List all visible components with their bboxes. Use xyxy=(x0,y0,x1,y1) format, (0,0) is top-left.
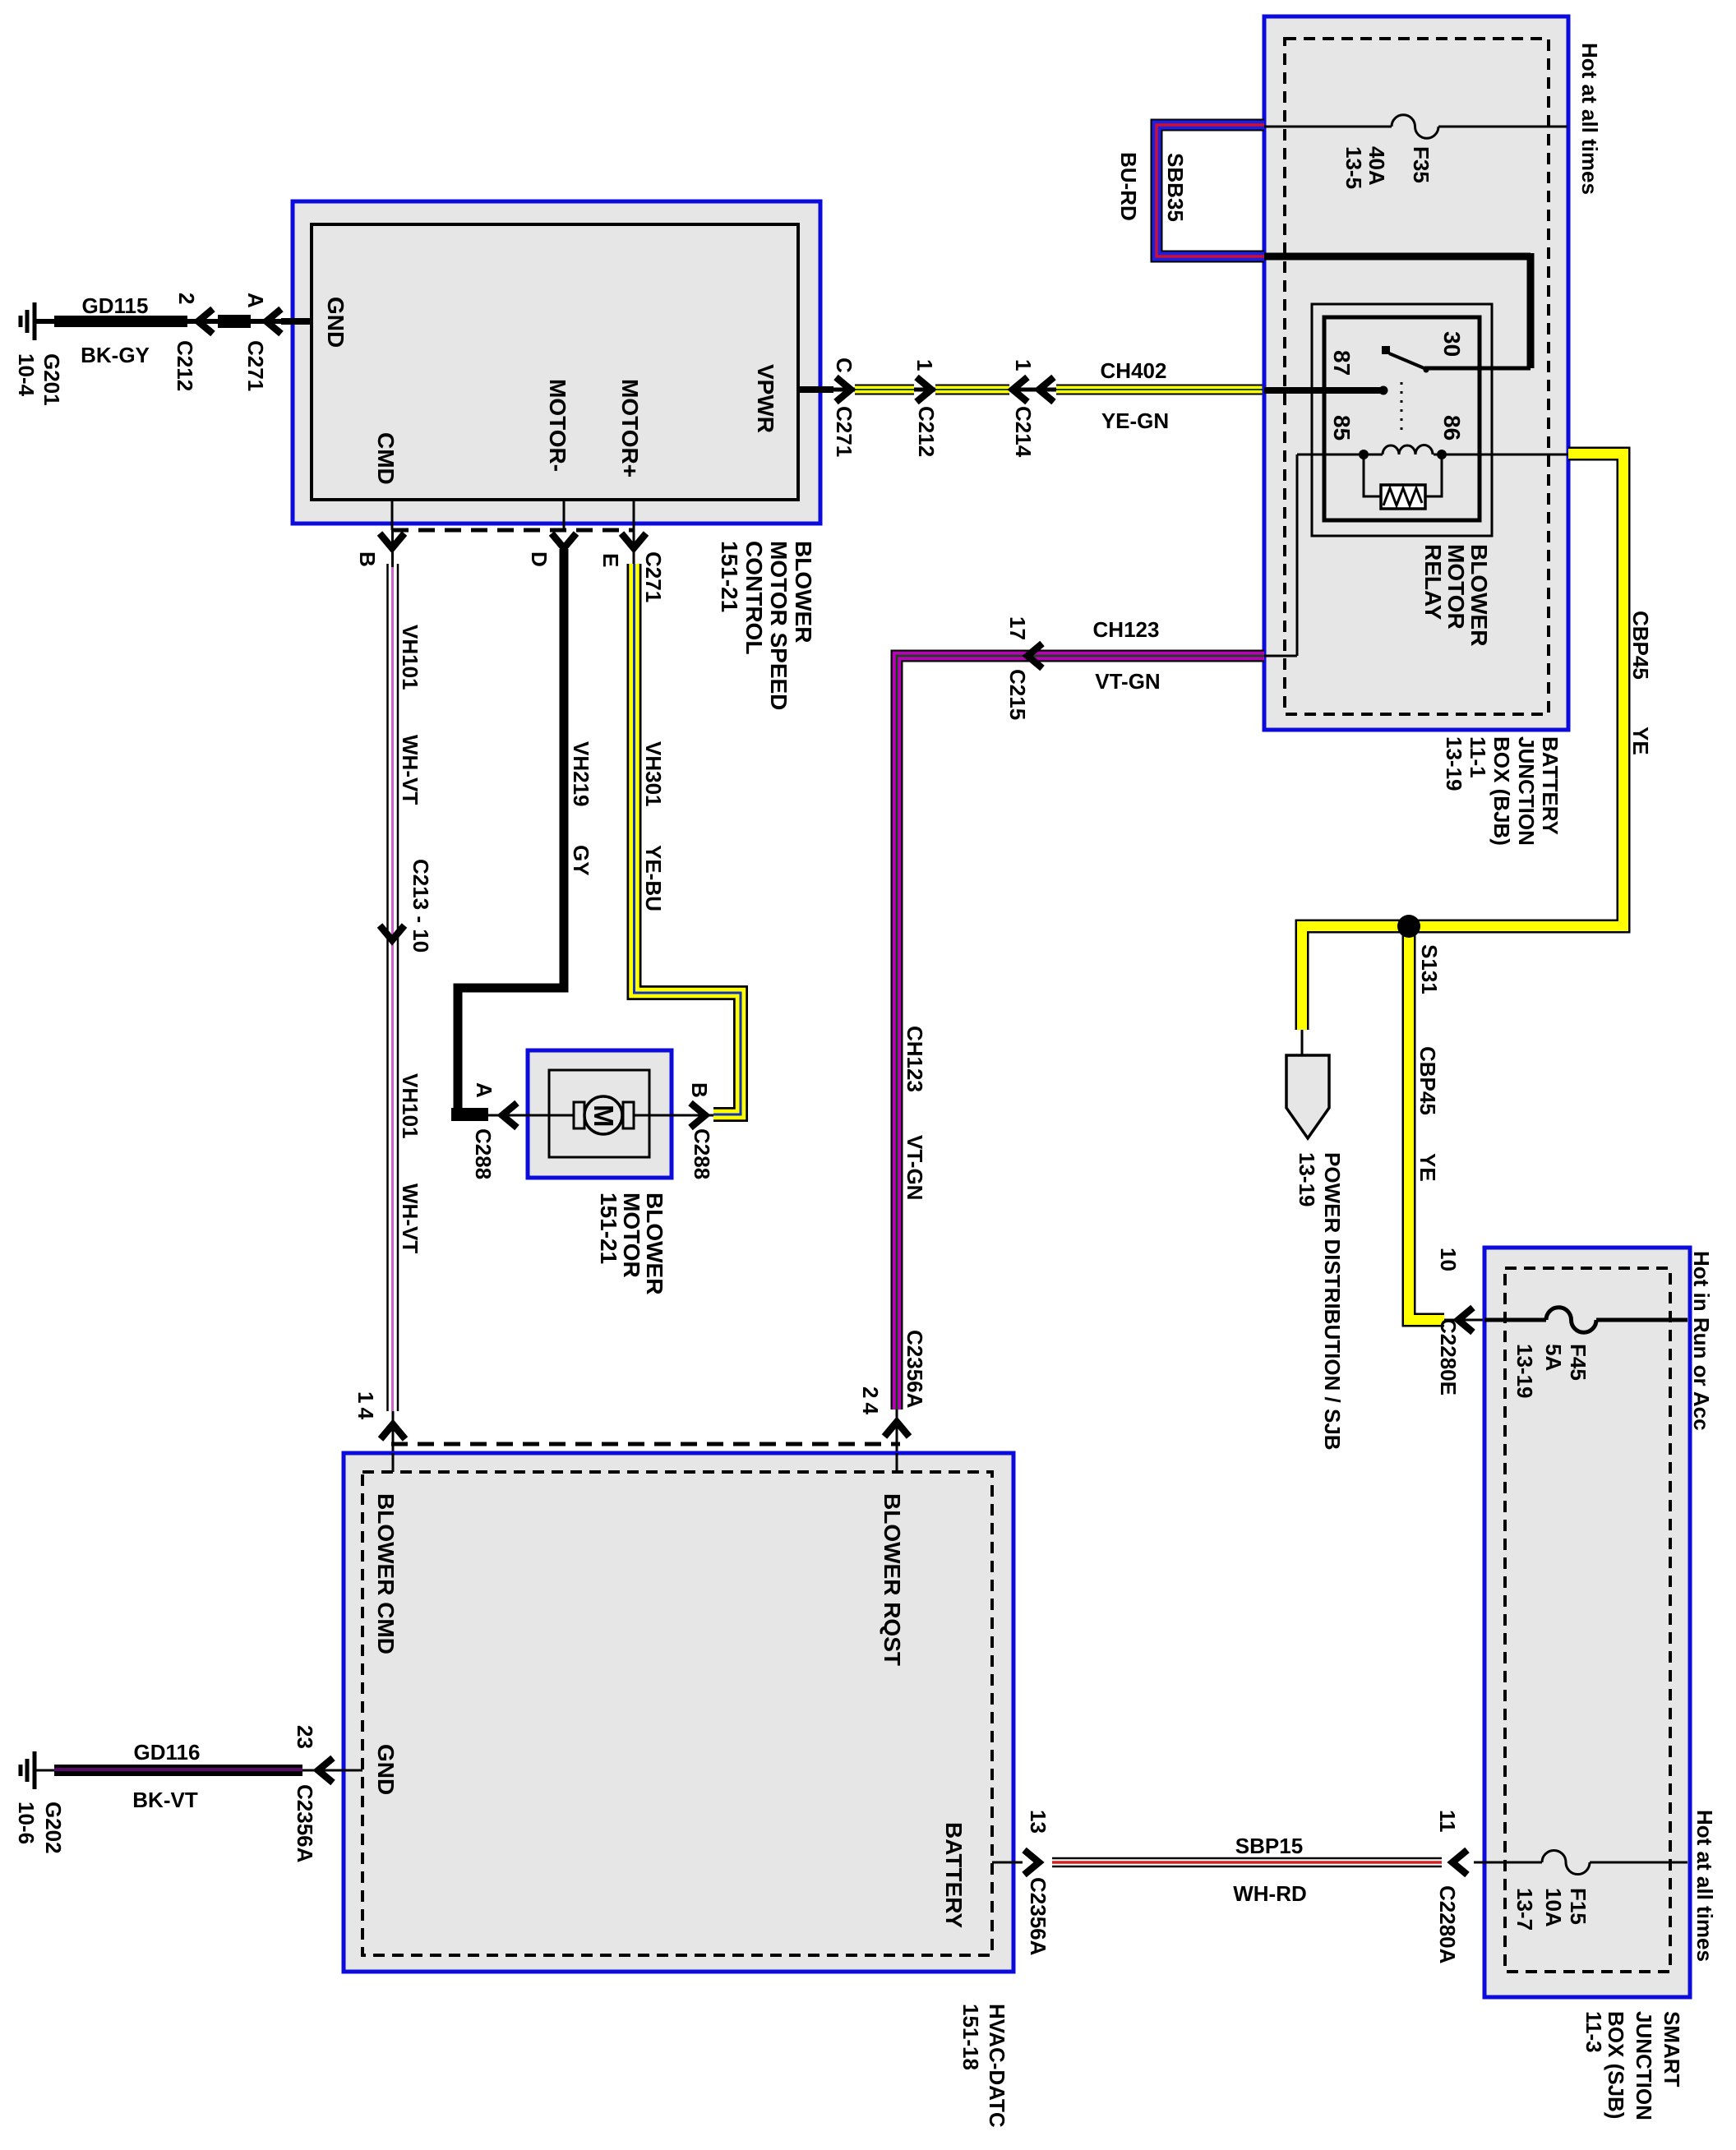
svg-text:11: 11 xyxy=(1435,1810,1460,1833)
svg-text:C214: C214 xyxy=(1011,406,1036,458)
svg-text:85: 85 xyxy=(1329,415,1355,441)
svg-text:10: 10 xyxy=(1436,1248,1461,1271)
svg-text:13-19: 13-19 xyxy=(1442,736,1466,791)
svg-text:87: 87 xyxy=(1329,350,1355,376)
svg-text:5A: 5A xyxy=(1541,1344,1566,1371)
svg-text:YE: YE xyxy=(1628,727,1653,755)
svg-text:BLOWER: BLOWER xyxy=(1466,544,1492,646)
svg-text:10-4: 10-4 xyxy=(14,353,39,397)
svg-text:YE-BU: YE-BU xyxy=(641,845,666,911)
svg-text:BU-RD: BU-RD xyxy=(1116,152,1141,221)
svg-text:CBP45: CBP45 xyxy=(1628,611,1653,680)
svg-text:151-18: 151-18 xyxy=(958,2004,983,2070)
svg-text:GND: GND xyxy=(373,1744,399,1795)
svg-text:WH-RD: WH-RD xyxy=(1233,1881,1307,1906)
svg-text:MOTOR-: MOTOR- xyxy=(545,379,570,472)
svg-text:CONTROL: CONTROL xyxy=(741,541,767,654)
svg-text:SBP15: SBP15 xyxy=(1235,1834,1303,1858)
svg-text:JUNCTION: JUNCTION xyxy=(1632,2011,1656,2120)
svg-text:F15: F15 xyxy=(1566,1888,1591,1925)
svg-text:BOX (BJB): BOX (BJB) xyxy=(1489,736,1514,846)
svg-text:BOX (SJB): BOX (SJB) xyxy=(1604,2011,1628,2119)
svg-text:E: E xyxy=(598,553,623,567)
svg-text:C2280E: C2280E xyxy=(1436,1318,1461,1396)
svg-text:POWER DISTRIBUTION / SJB: POWER DISTRIBUTION / SJB xyxy=(1320,1152,1345,1451)
svg-text:C2356A: C2356A xyxy=(903,1330,927,1409)
svg-text:13-19: 13-19 xyxy=(1512,1344,1537,1399)
svg-text:C212: C212 xyxy=(914,406,939,457)
svg-text:CBP45: CBP45 xyxy=(1415,1046,1440,1115)
svg-text:13-5: 13-5 xyxy=(1341,146,1366,189)
svg-text:WH-VT: WH-VT xyxy=(398,735,422,805)
svg-text:13-19: 13-19 xyxy=(1295,1152,1319,1207)
svg-text:B: B xyxy=(355,551,380,567)
svg-text:151-21: 151-21 xyxy=(717,541,742,612)
svg-text:10A: 10A xyxy=(1541,1888,1566,1927)
svg-text:SBB35: SBB35 xyxy=(1163,153,1188,222)
svg-text:BLOWER CMD: BLOWER CMD xyxy=(373,1493,399,1654)
svg-text:CH402: CH402 xyxy=(1101,358,1167,383)
svg-text:17: 17 xyxy=(1005,616,1030,640)
svg-text:C2356A: C2356A xyxy=(1026,1877,1050,1956)
svg-text:BATTERY: BATTERY xyxy=(941,1822,967,1928)
svg-text:C288: C288 xyxy=(471,1128,496,1179)
svg-text:G201: G201 xyxy=(39,353,64,406)
svg-text:GD115: GD115 xyxy=(82,293,149,318)
svg-text:VH101: VH101 xyxy=(398,625,422,690)
svg-text:MOTOR SPEED: MOTOR SPEED xyxy=(766,541,792,710)
svg-text:13: 13 xyxy=(1026,1810,1050,1834)
svg-text:VH101: VH101 xyxy=(398,1073,422,1139)
svg-text:F45: F45 xyxy=(1566,1344,1591,1381)
svg-text:10-6: 10-6 xyxy=(14,1802,39,1844)
svg-text:30: 30 xyxy=(1439,331,1465,357)
svg-text:VH301: VH301 xyxy=(641,741,666,807)
svg-text:HVAC-DATC: HVAC-DATC xyxy=(985,2004,1009,2128)
svg-text:BLOWER RQST: BLOWER RQST xyxy=(880,1493,905,1666)
svg-text:GY: GY xyxy=(569,845,593,876)
svg-text:Hot at all times: Hot at all times xyxy=(1577,43,1602,195)
svg-text:BK-VT: BK-VT xyxy=(132,1788,198,1812)
svg-text:C2356A: C2356A xyxy=(293,1784,317,1863)
svg-text:C2280A: C2280A xyxy=(1435,1885,1460,1964)
svg-text:B: B xyxy=(687,1082,712,1098)
svg-text:GD116: GD116 xyxy=(134,1740,201,1765)
svg-text:JUNCTION: JUNCTION xyxy=(1514,736,1539,846)
svg-text:VT-GN: VT-GN xyxy=(903,1135,927,1200)
svg-text:A: A xyxy=(243,293,268,308)
svg-text:C271: C271 xyxy=(243,340,268,391)
svg-text:C288: C288 xyxy=(690,1128,714,1179)
svg-text:C: C xyxy=(832,358,856,373)
svg-text:BLOWER: BLOWER xyxy=(642,1193,667,1294)
svg-text:YE: YE xyxy=(1415,1153,1440,1182)
svg-text:14: 14 xyxy=(353,1391,378,1423)
svg-text:11-3: 11-3 xyxy=(1581,2011,1606,2053)
svg-text:BATTERY: BATTERY xyxy=(1538,736,1563,835)
svg-text:A: A xyxy=(472,1082,496,1098)
svg-text:RELAY: RELAY xyxy=(1420,544,1446,621)
svg-text:CMD: CMD xyxy=(373,432,399,485)
svg-text:M: M xyxy=(589,1105,619,1128)
svg-text:Hot at all times: Hot at all times xyxy=(1692,1810,1717,1962)
svg-text:MOTOR+: MOTOR+ xyxy=(617,379,643,478)
svg-text:24: 24 xyxy=(858,1386,883,1419)
svg-text:13-7: 13-7 xyxy=(1512,1888,1537,1931)
svg-text:MOTOR: MOTOR xyxy=(1443,544,1469,630)
svg-text:CH123: CH123 xyxy=(1093,617,1160,642)
svg-text:23: 23 xyxy=(293,1725,317,1749)
svg-text:2: 2 xyxy=(174,293,199,304)
svg-text:C271: C271 xyxy=(832,406,856,457)
svg-text:SMART: SMART xyxy=(1660,2011,1684,2088)
svg-text:40A: 40A xyxy=(1364,146,1389,186)
svg-text:GND: GND xyxy=(323,297,349,348)
svg-text:11-1: 11-1 xyxy=(1466,736,1490,778)
svg-text:BLOWER: BLOWER xyxy=(791,541,816,643)
svg-text:C212: C212 xyxy=(173,340,197,391)
svg-text:Hot in Run or Acc: Hot in Run or Acc xyxy=(1689,1251,1714,1431)
svg-text:C213 - 10: C213 - 10 xyxy=(409,859,433,953)
svg-text:151-21: 151-21 xyxy=(596,1193,621,1264)
svg-text:YE-GN: YE-GN xyxy=(1101,408,1169,433)
svg-text:S131: S131 xyxy=(1417,944,1442,994)
svg-text:CH123: CH123 xyxy=(903,1026,927,1092)
svg-text:WH-VT: WH-VT xyxy=(398,1183,422,1253)
svg-text:VPWR: VPWR xyxy=(753,364,778,433)
svg-text:BK-GY: BK-GY xyxy=(81,343,150,367)
svg-text:86: 86 xyxy=(1439,415,1465,441)
svg-text:1: 1 xyxy=(1011,359,1036,371)
svg-text:C215: C215 xyxy=(1005,669,1030,720)
svg-text:VH219: VH219 xyxy=(569,741,593,807)
svg-text:D: D xyxy=(527,551,552,567)
svg-text:MOTOR: MOTOR xyxy=(619,1193,644,1278)
svg-text:1: 1 xyxy=(912,359,937,371)
svg-text:F35: F35 xyxy=(1409,146,1434,183)
svg-text:VT-GN: VT-GN xyxy=(1095,669,1160,694)
svg-text:G202: G202 xyxy=(41,1802,66,1854)
svg-text:C271: C271 xyxy=(641,551,666,602)
